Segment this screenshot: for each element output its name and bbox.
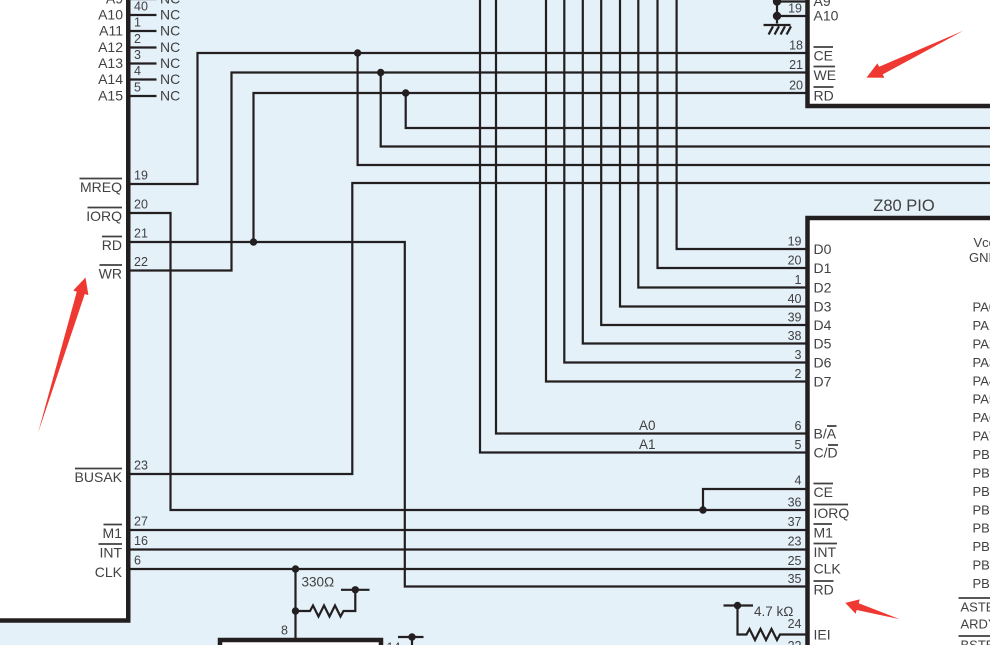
svg-text:INT: INT [99, 545, 122, 561]
wire INT [128, 548, 806, 550]
wire PIO CE jog [703, 489, 806, 510]
Z80 pin A13 (3) NC [98, 48, 180, 71]
wire CLK [128, 568, 806, 570]
svg-text:22: 22 [788, 639, 802, 645]
svg-text:IORQ: IORQ [814, 505, 850, 521]
svg-text:18: 18 [789, 39, 803, 53]
svg-text:WR: WR [99, 266, 122, 282]
junction CLK resistor tap [292, 565, 299, 572]
junction RD branch up [250, 238, 257, 245]
svg-text:A15: A15 [98, 88, 123, 104]
Z80 pin WR (22) [99, 255, 148, 282]
svg-text:GND: GND [969, 250, 990, 265]
PIO pin D4 (39) [788, 311, 832, 334]
Z80 pin A11 (1) NC [99, 16, 180, 39]
RAM pin RD (20) [789, 79, 834, 104]
svg-text:3: 3 [795, 348, 802, 362]
junction RAM RD branch [402, 89, 409, 96]
svg-text:19: 19 [788, 235, 802, 249]
PIO pin B/A (6) [795, 419, 837, 442]
svg-text:NC: NC [160, 7, 180, 23]
svg-text:CLK: CLK [814, 561, 842, 577]
svg-text:330Ω: 330Ω [302, 575, 335, 590]
svg-text:PA6: PA6 [973, 410, 990, 425]
svg-text:PB7: PB7 [973, 576, 990, 591]
svg-text:24: 24 [788, 617, 802, 631]
Z80 CPU U1 body [0, 0, 128, 621]
svg-text:D6: D6 [814, 355, 832, 371]
red arrow annotation 1 (RAM WE) [867, 31, 964, 78]
svg-text:5: 5 [134, 81, 141, 95]
svg-text:8: 8 [281, 624, 288, 638]
svg-text:PB4: PB4 [973, 521, 990, 536]
svg-text:PA3: PA3 [973, 355, 990, 370]
svg-text:IEI: IEI [814, 627, 831, 643]
svg-text:NC: NC [160, 71, 180, 87]
svg-text:WE: WE [814, 67, 837, 83]
svg-text:MREQ: MREQ [80, 179, 122, 195]
svg-text:A11: A11 [99, 23, 123, 39]
wire CLK tap down [294, 569, 296, 611]
junction CE branch [354, 49, 361, 56]
junction U4 stub [408, 633, 415, 640]
svg-text:B/A: B/A [814, 426, 837, 442]
svg-text:16: 16 [134, 534, 148, 548]
svg-text:D1: D1 [814, 260, 832, 276]
PIO pin INT (23) [788, 535, 837, 561]
wire M1 [128, 529, 806, 531]
wire A1 to PIO C/D [480, 0, 806, 453]
svg-text:D2: D2 [814, 280, 832, 296]
+5V stub for R1 [341, 589, 370, 591]
svg-text:CLK: CLK [95, 564, 123, 580]
wire RD to PIO RD [128, 242, 806, 587]
PIO port B labels PB0-PB7 [973, 447, 990, 591]
PIO pin D1 (20) [788, 254, 832, 277]
svg-text:A0: A0 [639, 418, 656, 433]
wire D5 [583, 0, 806, 344]
bottom chip U4 body [220, 640, 381, 645]
svg-text:RD: RD [102, 237, 122, 253]
red arrow annotation 3 (PIO RD) [845, 599, 899, 619]
PIO pin RD (35) [788, 572, 834, 598]
PIO pin CLK (25) [788, 554, 842, 577]
svg-text:22: 22 [134, 255, 148, 269]
svg-text:NC: NC [160, 39, 180, 55]
PIO pin C/D (5) [795, 438, 838, 461]
svg-text:D0: D0 [814, 241, 832, 257]
Z80 PIO U3 body [808, 218, 990, 645]
svg-text:CE: CE [814, 48, 833, 64]
wire D0 [677, 0, 806, 249]
svg-text:PA4: PA4 [973, 373, 990, 388]
+5V stub for U4 pin 14 [398, 636, 424, 638]
svg-text:CE: CE [814, 484, 833, 500]
junction WE branch [377, 69, 384, 76]
svg-text:23: 23 [788, 535, 802, 549]
junction R1 stub [352, 586, 359, 593]
svg-text:21: 21 [789, 58, 803, 72]
svg-text:M1: M1 [814, 525, 834, 541]
resistor R2 4.7kohm [738, 606, 806, 641]
PIO pin BSTB (clipped) [959, 636, 990, 645]
wire D6 [564, 0, 805, 363]
svg-text:38: 38 [788, 329, 802, 343]
svg-text:20: 20 [134, 198, 148, 212]
Z80 pin INT (16) [99, 534, 148, 561]
svg-text:1: 1 [134, 16, 141, 30]
red arrow annotation 2 (Z80 WR) [38, 278, 88, 434]
svg-text:D7: D7 [814, 374, 832, 390]
svg-text:35: 35 [788, 572, 802, 586]
junction CE-IORQ [699, 506, 706, 513]
svg-text:PA2: PA2 [973, 336, 990, 351]
wire U4 pin 14 drop [411, 637, 413, 645]
junction A9 ground [773, 0, 781, 6]
svg-text:40: 40 [134, 0, 148, 14]
Z80 pin A14 (4) NC [98, 64, 180, 87]
junction A10 ground [773, 12, 781, 20]
svg-text:A10: A10 [98, 7, 123, 23]
svg-text:D3: D3 [814, 299, 832, 315]
Z80 pin BUSAK (23) [75, 459, 148, 486]
svg-text:27: 27 [134, 515, 148, 529]
svg-text:PB6: PB6 [973, 558, 990, 573]
svg-text:D4: D4 [814, 317, 832, 333]
svg-text:BSTB: BSTB [961, 638, 990, 645]
svg-text:A12: A12 [98, 39, 123, 55]
wire BUSAK east [128, 183, 990, 474]
svg-text:40: 40 [788, 292, 802, 306]
svg-text:37: 37 [788, 515, 802, 529]
resistor R2 4.7k stub [724, 604, 754, 606]
svg-text:14: 14 [387, 641, 401, 645]
svg-text:6: 6 [795, 419, 802, 433]
wire D3 [620, 0, 806, 307]
svg-text:Vcc: Vcc [974, 235, 990, 250]
PIO pin D3 (40) [788, 292, 832, 315]
svg-text:39: 39 [788, 311, 802, 325]
PIO pin D2 (1) [795, 273, 832, 296]
wire D7 [546, 0, 806, 382]
svg-text:INT: INT [814, 544, 837, 560]
svg-text:PA7: PA7 [973, 429, 990, 444]
Z80 pin M1 (27) [103, 515, 148, 542]
wire RD branch east [406, 93, 990, 128]
wire A0 to PIO B/A [496, 0, 806, 434]
wire D4 [601, 0, 805, 325]
RAM pin CE (18) [789, 39, 833, 64]
svg-text:ASTB: ASTB [961, 600, 990, 615]
junction resistor R1 [292, 607, 299, 614]
svg-text:PB0: PB0 [973, 447, 990, 462]
Z80 pin CLK (6) [95, 554, 141, 581]
PIO pin D5 (38) [788, 329, 832, 352]
PIO pin ASTB [959, 598, 990, 615]
svg-text:PA0: PA0 [973, 300, 990, 315]
Z80 pin A12 (2) NC [98, 32, 180, 55]
svg-text:1: 1 [795, 273, 802, 287]
svg-text:PA1: PA1 [973, 318, 990, 333]
Z80 pin RD (21) [102, 227, 148, 254]
svg-text:A1: A1 [639, 437, 656, 452]
wire D1 [658, 0, 806, 268]
svg-text:M1: M1 [103, 525, 123, 541]
svg-text:RD: RD [814, 88, 834, 104]
svg-text:NC: NC [160, 55, 180, 71]
wire RAM A10 to ground [777, 15, 806, 17]
svg-text:19: 19 [788, 2, 802, 16]
resistor R1 330ohm [296, 590, 356, 617]
svg-text:PB5: PB5 [973, 539, 990, 554]
wire to bottom chip pin 8 [294, 611, 296, 640]
svg-text:2: 2 [134, 32, 141, 46]
Z80 pin A10 (40) NC [98, 0, 180, 23]
svg-text:4: 4 [795, 474, 802, 488]
RAM pin WE (21) [789, 58, 836, 83]
wire MREQ to RAM CE [128, 53, 806, 184]
svg-text:PB1: PB1 [973, 465, 990, 480]
svg-text:A14: A14 [98, 71, 123, 87]
svg-text:36: 36 [788, 496, 802, 510]
wire IORQ to PIO IORQ [128, 213, 806, 510]
svg-text:PB2: PB2 [973, 484, 990, 499]
PIO pin D6 (3) [795, 348, 832, 371]
Z80 pin A9 (clipped) NC [106, 0, 180, 7]
wire RAM A9 to ground [777, 0, 806, 2]
PIO pin IORQ (36) [788, 496, 850, 522]
PIO pin CE (4) [795, 474, 833, 501]
Z80 pin IORQ (20) [86, 198, 148, 225]
svg-text:Z80 PIO: Z80 PIO [873, 197, 935, 215]
RAM pin A9 (19) [788, 0, 831, 16]
wire CE branch east [358, 53, 990, 165]
junction R2 stub [734, 602, 741, 609]
wire RD to RAM RD [254, 93, 806, 242]
ground symbol [764, 25, 792, 35]
svg-text:ARDY: ARDY [961, 617, 990, 632]
svg-text:PA5: PA5 [973, 392, 990, 407]
svg-text:20: 20 [789, 79, 803, 93]
Z80 pin MREQ (19) [80, 169, 148, 196]
PIO pin D0 (19) [788, 235, 832, 258]
svg-text:D5: D5 [814, 336, 832, 352]
svg-text:6: 6 [134, 554, 141, 568]
svg-text:C/D: C/D [814, 445, 838, 461]
svg-text:NC: NC [160, 23, 180, 39]
wire D2 [638, 0, 805, 288]
svg-text:21: 21 [134, 227, 148, 241]
PIO pin D7 (2) [795, 367, 832, 390]
wire WR to RAM WE [128, 73, 806, 271]
Z80 pin A15 (5) NC [98, 81, 180, 104]
PIO pin M1 (37) [788, 515, 834, 541]
svg-text:IORQ: IORQ [86, 208, 122, 224]
svg-text:5: 5 [795, 438, 802, 452]
svg-text:23: 23 [134, 459, 148, 473]
wire ground drop [776, 2, 778, 24]
svg-text:A10: A10 [814, 8, 839, 24]
svg-text:RD: RD [814, 582, 834, 598]
PIO pin IEI (24) [788, 617, 831, 643]
svg-text:25: 25 [788, 554, 802, 568]
svg-text:19: 19 [134, 169, 148, 183]
svg-text:NC: NC [160, 88, 180, 104]
RAM U2 body [808, 0, 990, 106]
wire WE branch east [381, 73, 990, 147]
svg-text:A13: A13 [98, 55, 123, 71]
svg-text:4.7 kΩ: 4.7 kΩ [754, 604, 794, 619]
PIO port A labels PA0-PA7 [973, 300, 990, 444]
svg-text:3: 3 [134, 48, 141, 62]
svg-text:4: 4 [134, 64, 141, 78]
svg-text:PB3: PB3 [973, 502, 990, 517]
svg-text:BUSAK: BUSAK [75, 469, 123, 485]
svg-text:2: 2 [795, 367, 802, 381]
svg-text:20: 20 [788, 254, 802, 268]
